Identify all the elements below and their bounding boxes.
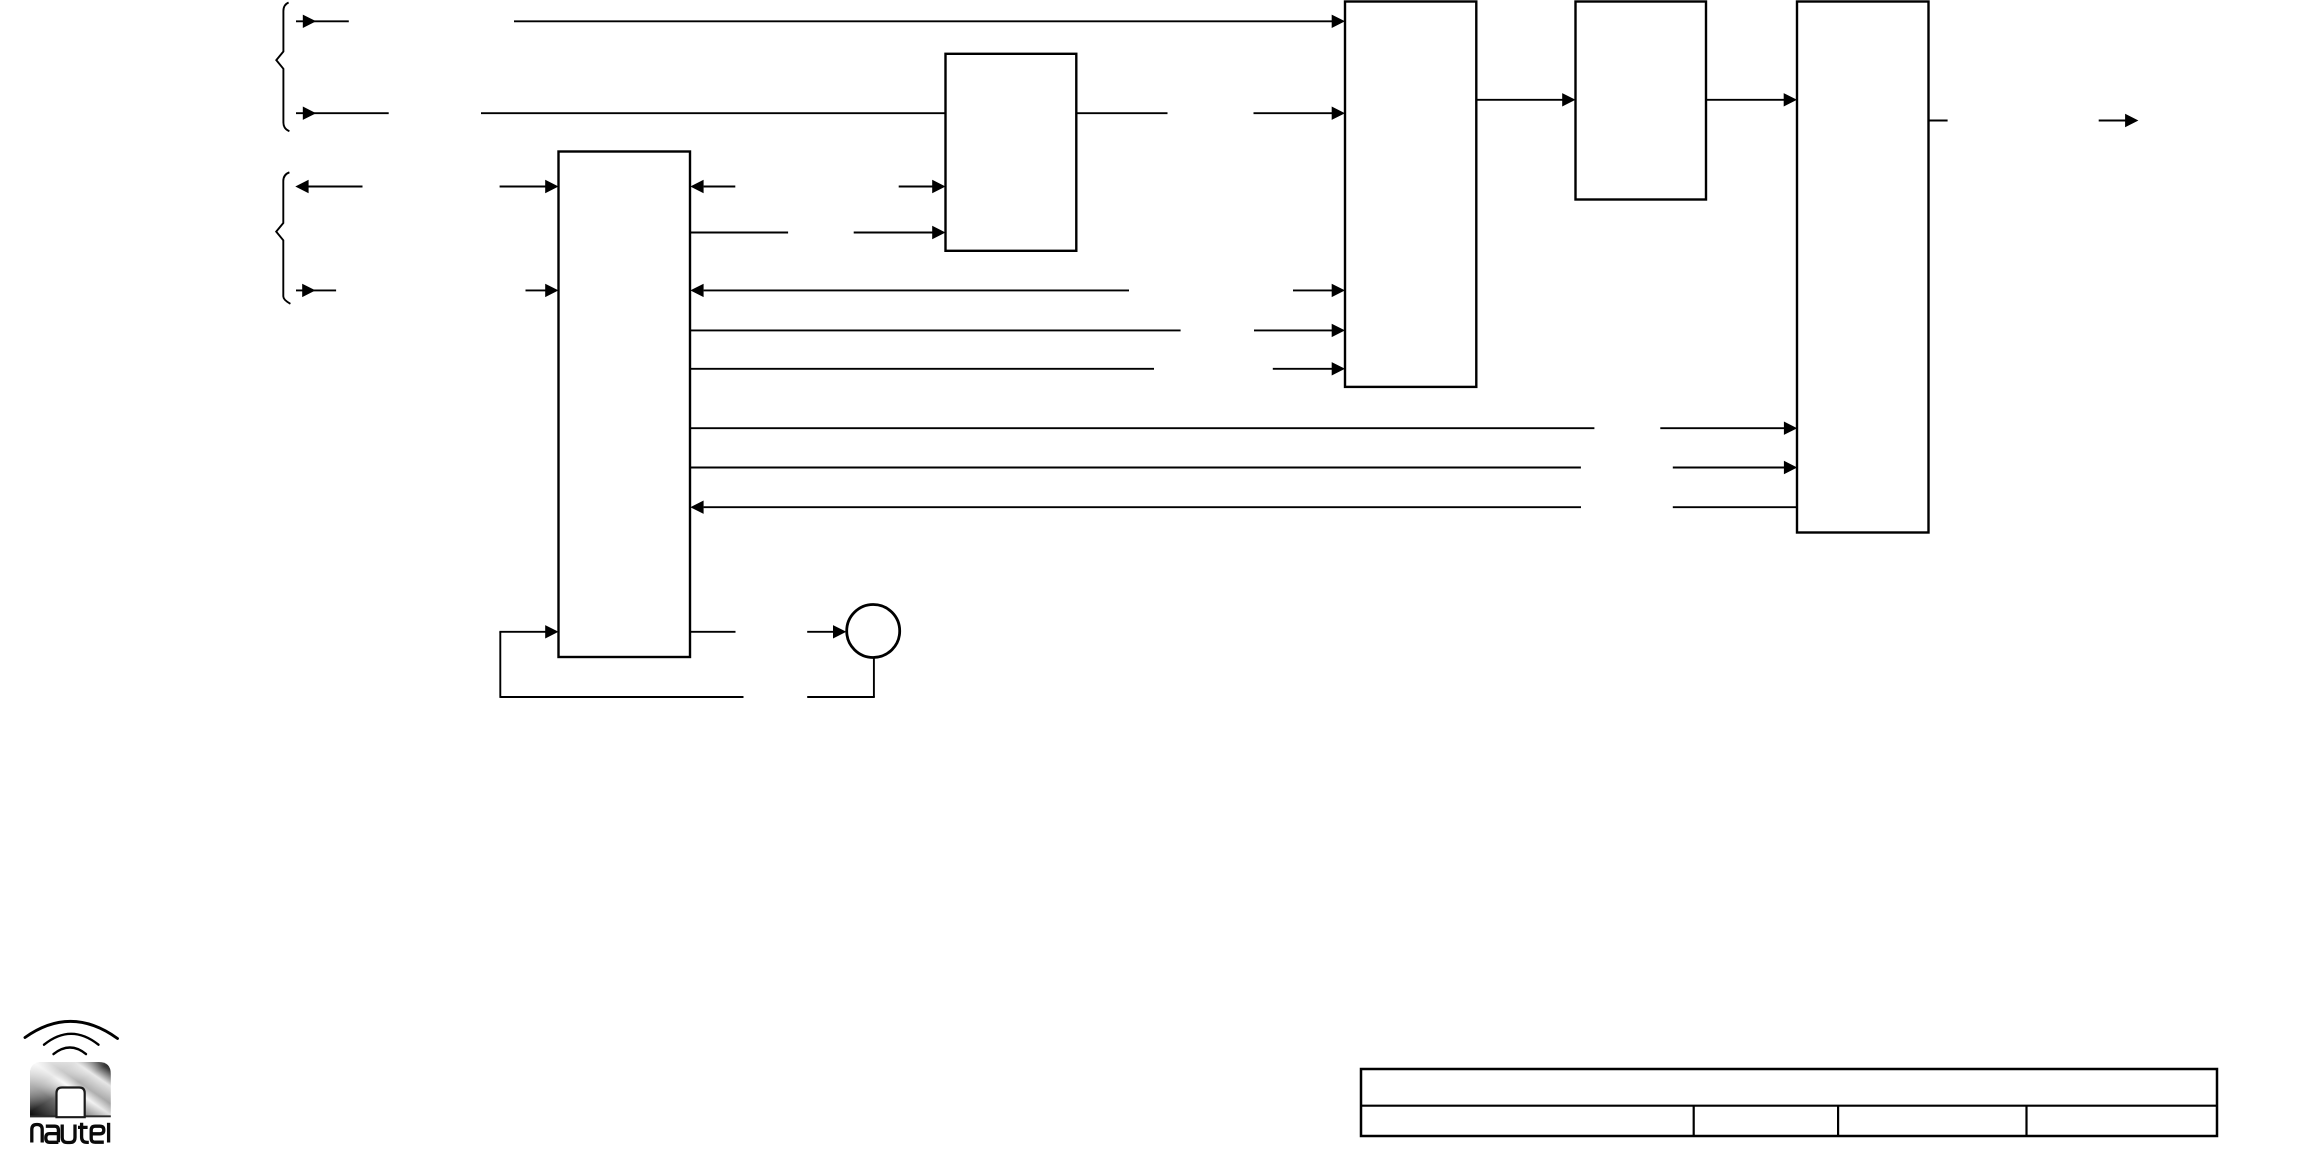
wire row5 into U1 left [526,284,559,297]
wire row9 into U5 [1673,461,1797,474]
logo n block [30,1062,111,1117]
title block vline 3 [2025,1106,2027,1136]
block U5 (right tall) [1797,2,1929,533]
wire into meter M1 [807,625,846,638]
logo arc middle [44,1034,99,1045]
meter M1 circle [847,605,900,658]
block U4 (top right small) [1576,2,1707,200]
wire row2 U2 out [1076,112,1167,114]
wire input stub row2 [296,107,389,120]
wire row6 into U3 [1254,324,1345,337]
wire row5 long into U1 right [690,284,1129,297]
wire row2 into U3 [1254,107,1346,120]
wire row1 to U3 [514,15,1345,28]
logo wordmark nautel [32,1123,109,1143]
wire U3 out into U4 [1476,93,1575,106]
wire row2 to U2 [481,112,946,114]
wire U5 output stub [1929,120,1948,122]
wire row10 into U1 right (from U5) [690,501,1581,514]
block U2 (middle) [946,54,1077,251]
wire row4 U1 to gap [690,232,788,234]
brace left group 1 [276,3,289,132]
wire row8 into U5 [1660,422,1797,435]
wire feedback riser [499,632,501,698]
title block vline 2 [1837,1106,1839,1136]
wire row3 into U1 right side [690,180,735,193]
wire feedback bottom run [500,696,743,698]
logo n notch [57,1088,85,1118]
wire meter drop [873,658,875,697]
wire U4 out into U5 [1706,93,1797,106]
wire U1 bottom out to meter [690,631,735,633]
title block vline 1 [1693,1106,1695,1136]
wire row5 into U3 [1293,284,1345,297]
title block divider [1361,1105,2217,1107]
wire row3 into U2 [899,180,946,193]
logo arc outer [25,1021,118,1038]
title block outer [1361,1069,2217,1136]
wire input stub row1 [296,15,349,28]
wire output stub row3 (leftward) [295,180,362,193]
wire row8 U1 to gap [690,427,1594,429]
block U1 exciter/control (tall left) [559,152,691,658]
brace left group 2 [276,172,290,303]
wire row4 into U2 [854,226,946,239]
wire input stub row5 [296,284,336,297]
wire row3 into U1 left [500,180,559,193]
wire row7 into U3 [1273,362,1345,375]
wire row6 U1 to gap [690,329,1181,331]
logo arc inner [54,1048,87,1055]
wire row10 from U5 left [1673,506,1797,508]
wire final output arrow [2099,114,2139,127]
wire meter bottom run [807,696,875,698]
block U3 (centre-right tall) [1345,2,1476,387]
wire feedback into U1 left [499,625,558,638]
wire row9 U1 to gap [690,467,1581,469]
wire row7 U1 to gap [690,368,1154,370]
